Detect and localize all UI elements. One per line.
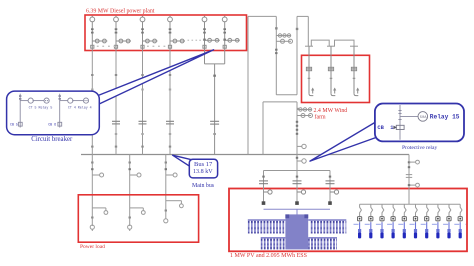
PV comb upper left [248,219,286,221]
svg-text:13.8 kV: 13.8 kV [193,169,213,175]
box wind farm [302,55,370,102]
svg-text:Main bus: Main bus [192,183,215,189]
PV comb upper right [308,219,346,221]
load feeder L3 [164,155,184,223]
ESS unit 10 [458,204,462,222]
generator G4 [168,16,185,51]
feeder from G4 to bus [166,51,174,155]
svg-text:1 MW PV and 2.095 MWh ESS: 1 MW PV and 2.095 MWh ESS [230,253,307,259]
load feeder L2 [128,155,146,232]
feeder x276 with relay cluster [275,16,292,94]
svg-text:Protective relay: Protective relay [402,145,437,151]
transformer PV1 [259,181,272,205]
box power load [78,195,198,242]
ESS unit 9 [447,204,451,222]
wind turbine W2 [328,46,336,95]
wire top horizontal right [297,15,308,17]
load feeder L1 [90,155,108,232]
PV ESS red box [229,189,467,252]
callout bus17 bubble [189,159,217,178]
box diesel power plant [85,15,247,51]
CB unit B inside bubble [58,94,89,128]
PV comb lower left [261,237,286,239]
svg-text:CT 4 Relay 4: CT 4 Relay 4 [68,105,92,109]
transformer PV2 [293,181,306,205]
generator G2 [114,16,131,51]
transformer PV3 [326,181,339,205]
callout protective relay tail [310,122,377,162]
generator G6 [222,16,240,49]
svg-text:2.4 MW Wind: 2.4 MW Wind [314,108,348,114]
wire x297 up [296,16,299,94]
svg-text:Bus 17: Bus 17 [194,161,213,168]
wind collector [305,16,358,46]
generator G1 [90,16,107,51]
ESS bus [360,203,461,205]
ESS unit 2 [369,204,373,222]
ESS unit 7 [425,204,429,222]
wire connector y102 [263,101,297,103]
ESS feeder [406,155,420,205]
feeder from G3 to bus [139,51,147,155]
PV splitter [262,171,331,203]
generator G5 [202,16,220,49]
wind turbine W3 [351,46,359,95]
svg-text:Relay 15: Relay 15 [430,114,460,121]
feeder from G2 to bus [112,51,120,155]
CB unit A inside bubble [18,94,49,128]
wire top horizontal left [248,15,276,17]
ellipsis between G3 G4 [147,46,165,47]
wire x263 to bus [262,102,264,155]
wire vertical x248 to bus [247,16,249,154]
svg-text:1: 1 [390,125,393,131]
main bus Bus17 [81,154,409,156]
PV dc link [264,208,331,210]
ESS unit 8 [436,204,440,222]
svg-text:Circuit breaker: Circuit breaker [31,136,73,143]
wind feeder to bus x297 [296,102,313,171]
svg-text:CT 5 Relay 5: CT 5 Relay 5 [29,105,53,109]
transformer block G5 G6 [205,43,225,155]
svg-text:farm: farm [315,113,327,120]
ESS unit 4 [391,204,395,222]
wind turbine W1 [306,46,314,95]
ESS unit 3 [380,204,384,222]
ESS unit 5 [402,204,406,222]
wire bottom of tall loop [276,94,297,96]
breaker CB above bus [297,145,302,147]
callout circuit breaker bubble [7,91,100,135]
ESS unit 6 [413,204,417,222]
svg-text:CB 5: CB 5 [10,123,18,127]
ellipsis between G4 G5 [188,40,201,41]
svg-text:50A: 50A [420,116,428,120]
svg-text:6.39 MW Diesel power plant: 6.39 MW Diesel power plant [86,8,155,14]
callout bus17 tail [173,155,192,167]
callout protective relay bubble [375,104,464,142]
breaker CB below bus [297,160,302,162]
ellipsis between G1 G2 [97,46,116,47]
generator G3 [140,16,157,51]
feeder from G1 to bus [88,51,96,155]
callout circuit breaker tail [96,50,214,106]
svg-text:CB: CB [377,125,384,131]
ESS unit 1 [358,204,362,222]
svg-text:Power load: Power load [80,244,105,250]
PV trunk [285,214,308,249]
relay unit inside bubble [393,105,427,140]
svg-text:CB 6: CB 6 [48,123,56,127]
ESS dashed dc line [354,223,467,225]
PV comb lower right [308,237,337,239]
